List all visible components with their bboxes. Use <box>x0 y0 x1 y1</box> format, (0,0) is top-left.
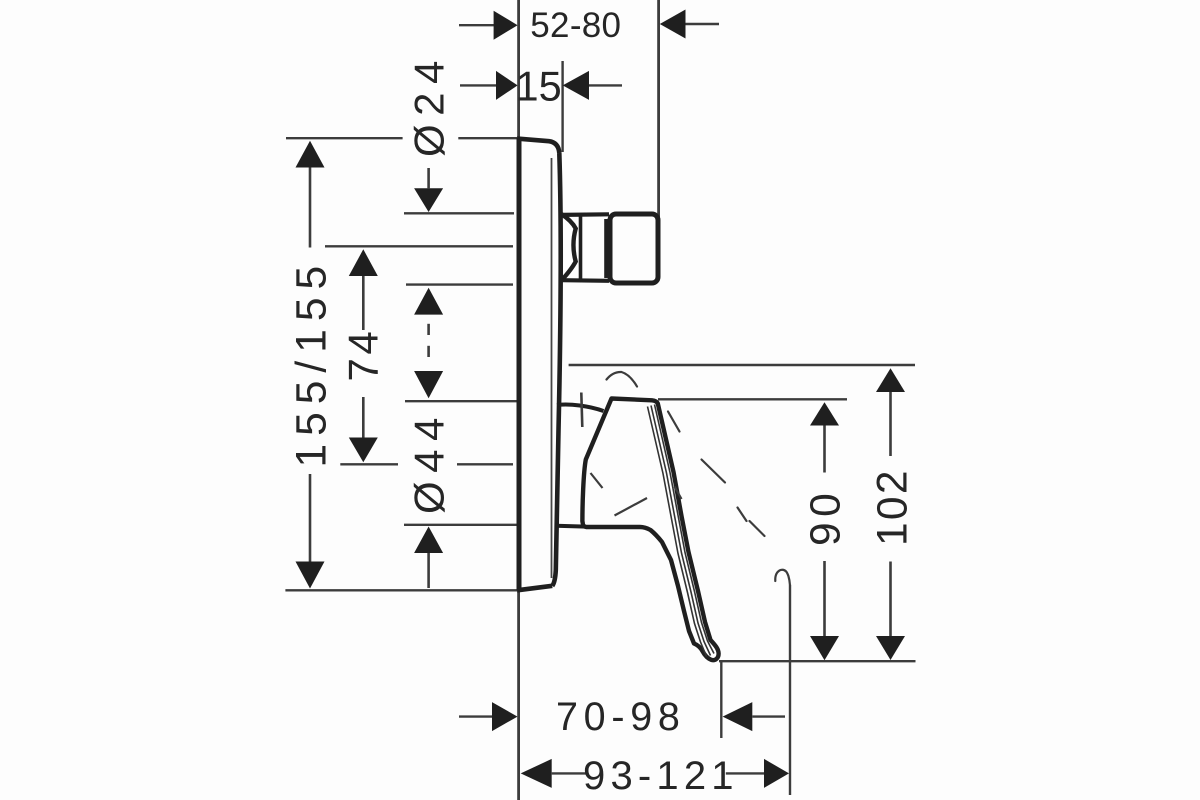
dimension 52-80 row <box>459 6 719 45</box>
dash b <box>702 460 726 483</box>
lever hatch line 2 <box>651 406 711 656</box>
arrow left-pointing <box>723 702 753 731</box>
arrow left-pointing <box>563 71 589 100</box>
plate body fill <box>519 139 561 591</box>
dimension chain 90 x=824.5 <box>803 402 850 660</box>
wire leader <box>726 772 764 774</box>
svg-text:70-98: 70-98 <box>556 695 686 739</box>
wire: dimension line V2 x=658.6 top <box>657 0 660 224</box>
mark on lever blade <box>675 487 682 500</box>
lever outline <box>582 399 718 661</box>
swing arc dashes <box>607 372 790 585</box>
arrow left-pointing <box>660 10 686 39</box>
wire leader left <box>459 24 494 26</box>
wire stem lower <box>362 397 365 439</box>
wire: handle top extension y=399.3 <box>658 398 847 400</box>
wire: projected tip vertical V5 x=790 <box>789 585 791 795</box>
knob mid top edge <box>563 212 610 217</box>
wire leader left <box>460 84 498 86</box>
arrow up <box>414 527 443 554</box>
dash a <box>668 412 680 432</box>
svg-text:15: 15 <box>516 63 562 110</box>
wire stem upper <box>823 426 826 473</box>
arrow down <box>349 438 378 463</box>
knob waist <box>561 214 576 282</box>
wire: lever tip vertical V4 x=721.3 <box>720 661 722 738</box>
dash hook end <box>775 570 790 585</box>
wire dashes <box>427 324 430 335</box>
escutcheon plate outline <box>517 138 561 591</box>
wire: dimension line V3 x=562.6 (15 right) <box>561 61 563 152</box>
svg-text:Ø44: Ø44 <box>406 409 453 514</box>
knob separator 2 <box>604 219 608 278</box>
stem top edge <box>557 405 604 411</box>
dimension 15 row <box>460 63 622 110</box>
mark inside neck lower <box>615 498 648 516</box>
arrow down to knob top <box>414 188 443 212</box>
knob outer body <box>610 214 658 283</box>
arrow right-pointing <box>492 702 518 731</box>
arrow right-pointing <box>764 759 789 788</box>
wire stem <box>427 553 430 588</box>
arrow right-pointing <box>496 71 518 100</box>
node D: knob bottom extension y=284.6 <box>406 283 513 285</box>
arrow up to knob bottom <box>414 288 443 315</box>
wire leader left <box>459 715 494 717</box>
mark inside neck upper <box>591 473 603 488</box>
plate bottom edge <box>517 586 552 591</box>
dash d <box>750 521 765 536</box>
wire stem lower <box>889 562 892 638</box>
dimension chain 155/155 x=310 <box>289 141 336 589</box>
wire leader <box>552 772 586 774</box>
dimension chain 102 x=890.5 <box>870 368 917 660</box>
dimension chain diameters x=428.6 <box>406 52 453 588</box>
plate top edge <box>517 139 559 153</box>
wire stem <box>427 168 430 188</box>
dimension chain 74 x=363.3 <box>340 249 387 462</box>
node F: 74-bottom extension y=464.3 <box>340 463 398 465</box>
arrow up <box>810 402 839 425</box>
wire stem lower <box>823 561 826 637</box>
stem tick mark <box>581 393 582 428</box>
arrow right-pointing <box>494 11 518 40</box>
arrow up <box>349 249 378 276</box>
arrow up <box>876 368 905 392</box>
svg-text:155/155: 155/155 <box>289 258 336 468</box>
knob separator 1 <box>579 215 583 280</box>
node G: extension y=524.8 <box>404 524 517 526</box>
volume knob <box>561 214 659 284</box>
wire stem upper <box>309 168 312 248</box>
node H: plate bottom extension y=590.3 <box>285 589 517 591</box>
svg-text:90: 90 <box>803 488 850 546</box>
knob mid bottom edge <box>563 278 610 283</box>
wire stem upper <box>889 392 892 456</box>
svg-text:52-80: 52-80 <box>530 6 621 45</box>
plate face <box>552 153 560 586</box>
arrow down <box>810 636 839 660</box>
dash caret peak <box>607 372 638 387</box>
arrow up <box>296 141 325 168</box>
node A: plate top extension y=138.2 <box>286 137 403 139</box>
node B: knob top extension y=213.3 <box>404 212 514 214</box>
wire: tip bottom extension y=661.2 <box>719 660 916 662</box>
svg-text:Ø24: Ø24 <box>406 52 453 157</box>
node C: 74-top extension y=246.3 <box>325 245 513 247</box>
lever hatch line 3 <box>648 407 707 657</box>
svg-text:102: 102 <box>870 468 917 546</box>
svg-text:74: 74 <box>340 328 387 382</box>
arrow down <box>876 636 905 660</box>
lever hatch line 1 <box>655 405 715 654</box>
wire leader right <box>752 715 785 717</box>
dimension 70-98 row <box>459 695 785 739</box>
plate face inner line <box>551 158 553 578</box>
arrow down <box>414 371 443 398</box>
plate left edge <box>517 138 522 591</box>
dimension 93-121 row <box>521 754 789 798</box>
wire stem upper <box>362 276 365 330</box>
wire stem lower <box>309 474 312 566</box>
wire leader right <box>589 84 622 86</box>
wire: wall dimension line V1 x=518.6 full height <box>517 0 520 800</box>
stem bottom edge <box>556 524 586 529</box>
handle group <box>556 393 719 661</box>
wire leader right <box>686 23 720 25</box>
node E: extension y=401.2 <box>405 400 517 402</box>
dash c <box>738 508 747 522</box>
arrow down <box>296 562 325 589</box>
wire: 102 top extension y=365 <box>569 364 915 366</box>
arrow left-pointing <box>521 759 552 788</box>
svg-text:93-121: 93-121 <box>583 754 739 798</box>
